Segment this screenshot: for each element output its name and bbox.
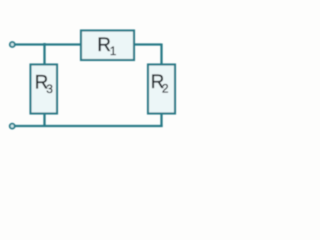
wire stub from top wire down to R3 bbox=[43, 43, 45, 65]
wire from R1 right to corner bbox=[134, 43, 162, 45]
svg-text:1: 1 bbox=[110, 44, 117, 58]
resistor R2 bbox=[148, 65, 175, 114]
resistor R3 bbox=[31, 65, 58, 114]
wire stub R3 bottom to bottom wire bbox=[43, 113, 45, 127]
terminal top-left bbox=[10, 42, 15, 47]
wire bottom from terminal to R2 corner bbox=[15, 125, 163, 127]
svg-text:3: 3 bbox=[46, 82, 53, 96]
svg-text:2: 2 bbox=[162, 82, 169, 96]
resistor R1 bbox=[81, 31, 134, 61]
wire corner down to R2 top bbox=[160, 44, 162, 66]
terminal bottom-left bbox=[10, 124, 15, 129]
wire stub R2 bottom to bottom wire bbox=[160, 113, 162, 127]
wire top from terminal to R1 bbox=[15, 43, 82, 45]
